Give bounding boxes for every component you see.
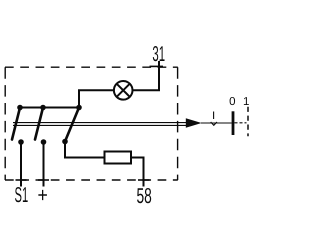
svg-text:S1: S1: [15, 183, 29, 207]
svg-text:0: 0: [229, 96, 235, 108]
svg-text:1: 1: [243, 96, 249, 108]
svg-text:58: 58: [136, 184, 151, 208]
svg-text:+: +: [37, 184, 47, 207]
svg-text:31: 31: [152, 42, 165, 66]
